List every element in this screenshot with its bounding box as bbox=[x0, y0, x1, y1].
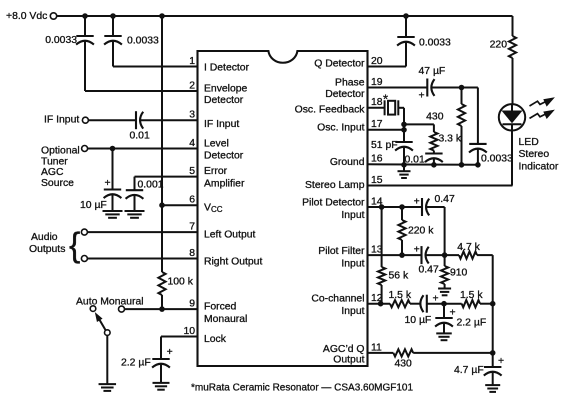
svg-text:430: 430 bbox=[395, 358, 413, 369]
label 4.7 k bbox=[457, 242, 480, 253]
svg-text:Osc. Input: Osc. Input bbox=[317, 122, 364, 133]
label pin9 Forced Monaural bbox=[204, 302, 247, 326]
terminal +8.0 Vdc input bbox=[50, 13, 56, 19]
terminal IF Input bbox=[82, 117, 88, 123]
svg-text:+: + bbox=[419, 91, 425, 102]
svg-text:430: 430 bbox=[426, 112, 444, 123]
svg-text:+: + bbox=[498, 356, 504, 367]
svg-text:Source: Source bbox=[41, 178, 74, 189]
label 0.0033 C3 bbox=[419, 38, 451, 49]
label pin1 I Detector bbox=[204, 63, 250, 74]
brace audio outputs bbox=[69, 227, 80, 265]
wire 4.7k to corner bbox=[477, 255, 493, 304]
resistor 1.5 k left bbox=[390, 300, 410, 307]
svg-text:3: 3 bbox=[189, 110, 195, 121]
node pf junction bbox=[442, 253, 447, 258]
label pin17 Osc. Input bbox=[317, 122, 364, 133]
label 0.0033 C2 bbox=[127, 36, 159, 47]
ground below switch bbox=[99, 384, 117, 391]
svg-text:Right Output: Right Output bbox=[204, 257, 262, 268]
label 0.0033 osc bbox=[481, 154, 513, 165]
svg-text:Detector: Detector bbox=[325, 89, 365, 100]
svg-text:Error: Error bbox=[204, 166, 228, 177]
label pin3 IF Input bbox=[204, 119, 239, 130]
node 100k to pin 9 junction bbox=[160, 307, 165, 312]
wire pin6 Vcc bbox=[162, 204, 198, 206]
capacitor 0.01 osc bbox=[425, 151, 443, 165]
svg-text:0.0033: 0.0033 bbox=[45, 35, 77, 46]
svg-text:*: * bbox=[383, 92, 388, 107]
svg-text:0.47: 0.47 bbox=[419, 265, 439, 276]
wire pin16 ground line bbox=[368, 163, 478, 166]
ground osc network bbox=[398, 165, 411, 178]
terminal Optional Tuner AGC Source bbox=[82, 146, 88, 152]
svg-text:+: + bbox=[167, 347, 173, 358]
svg-text:0.0033: 0.0033 bbox=[127, 36, 159, 47]
label 3.3 k bbox=[439, 134, 462, 145]
ground below 10uF AGC bbox=[103, 211, 123, 218]
wire pin17 Osc Input bbox=[368, 129, 405, 131]
labels left pin numbers 1-10 bbox=[183, 56, 195, 337]
node rail junction at C3 bbox=[404, 14, 409, 19]
svg-text:Lock: Lock bbox=[204, 334, 227, 345]
label pin11 AGCd Q Output bbox=[323, 344, 365, 366]
label 430 osc bbox=[426, 112, 444, 123]
svg-text:Ground: Ground bbox=[330, 157, 365, 168]
node pin14 56k bbox=[379, 205, 384, 210]
label asterisk resonator bbox=[383, 92, 388, 107]
resistor 3.3 k bbox=[430, 132, 437, 151]
label pin4 Level Detector bbox=[204, 139, 244, 162]
svg-text:AGC’d Q: AGC’d Q bbox=[323, 344, 365, 355]
label 0.01 osc bbox=[405, 155, 425, 166]
capacitor 0.47 pilot filter bbox=[422, 246, 429, 264]
label 220 bbox=[490, 40, 508, 51]
svg-text:Auto Monaural: Auto Monaural bbox=[76, 297, 144, 308]
svg-text:0.0033: 0.0033 bbox=[481, 154, 513, 165]
terminal Right Output bbox=[81, 256, 87, 262]
wire +8.0 Vdc supply rail bbox=[57, 15, 513, 17]
wire pin15 Stereo Lamp bbox=[368, 185, 513, 187]
svg-text:+: + bbox=[414, 245, 420, 256]
wire 0.47 to corner bbox=[426, 207, 444, 255]
wire pin2 from C1 bbox=[85, 90, 198, 92]
node rail junction at Vcc branch bbox=[160, 14, 165, 19]
label 10 uF bbox=[80, 200, 107, 211]
capacitor 0.0033 top right C3 bbox=[397, 16, 415, 67]
wire 430 to node bbox=[413, 352, 493, 354]
wire pin18 Osc Feedback bbox=[368, 107, 385, 109]
svg-text:+: + bbox=[450, 308, 456, 319]
label Optional Tuner AGC Source bbox=[41, 145, 80, 189]
node pin12 56k bbox=[378, 301, 383, 306]
label 47 uF bbox=[419, 66, 446, 77]
label + 10uF cc bbox=[433, 294, 439, 305]
svg-text:Audio: Audio bbox=[31, 232, 58, 243]
node gnd 0.0033 bbox=[476, 163, 481, 168]
resonator ceramic (muRata CSA3.60MGF101) bbox=[385, 100, 404, 115]
wire to 10uF bbox=[410, 303, 421, 305]
svg-text:+: + bbox=[414, 196, 420, 207]
svg-text:I Detector: I Detector bbox=[204, 63, 250, 74]
label pin12 Co-channel Input bbox=[311, 294, 364, 318]
wire 3.3k branch bbox=[404, 124, 434, 132]
label Audio Outputs bbox=[29, 232, 65, 255]
wire pin4 Level Detector bbox=[88, 148, 198, 150]
svg-text:9: 9 bbox=[189, 299, 195, 310]
svg-text:10: 10 bbox=[183, 326, 195, 337]
svg-text:10 µF: 10 µF bbox=[405, 315, 432, 326]
label 10 uF cc bbox=[405, 315, 432, 326]
svg-text:18: 18 bbox=[371, 97, 383, 108]
label +8.0 Vdc bbox=[6, 11, 47, 22]
svg-text:Pilot Detector: Pilot Detector bbox=[302, 197, 365, 208]
svg-text:51 pF: 51 pF bbox=[371, 140, 398, 151]
node gnd 51pF bbox=[402, 163, 407, 168]
capacitor 2.2 uF lock bbox=[152, 359, 170, 382]
label + 4.7uF bbox=[498, 356, 504, 367]
label 430 agc bbox=[395, 358, 413, 369]
terminal Auto Monaural bbox=[119, 306, 125, 312]
node gnd 0.01 bbox=[432, 163, 437, 168]
svg-text:6: 6 bbox=[189, 195, 195, 206]
wire 1.5k to corner bbox=[480, 303, 493, 305]
label + 2.2uF lock bbox=[167, 347, 173, 358]
wire osc node vertical bbox=[403, 108, 405, 142]
wire pin7 Left Output bbox=[87, 231, 197, 233]
resistor 56 k bbox=[378, 207, 385, 304]
svg-text:Stereo Lamp: Stereo Lamp bbox=[305, 180, 365, 191]
svg-text:IF Input: IF Input bbox=[204, 119, 239, 130]
node Vcc to pin 6 bbox=[160, 203, 165, 208]
svg-text:Input: Input bbox=[341, 258, 364, 269]
capacitor 47 uF bbox=[427, 79, 434, 97]
svg-text:17: 17 bbox=[371, 119, 383, 130]
svg-text:Forced: Forced bbox=[204, 302, 237, 313]
svg-text:Input: Input bbox=[341, 306, 364, 317]
label + 0.47 pf bbox=[414, 245, 420, 256]
svg-text:Q Detector: Q Detector bbox=[314, 59, 365, 70]
label pin18 Osc. Feedback bbox=[295, 104, 366, 115]
node rail junction at C1 bbox=[83, 14, 88, 19]
label footnote muRata bbox=[191, 383, 413, 394]
wire pin1 from C2 bbox=[113, 66, 198, 68]
label + 2.2uF cc bbox=[450, 308, 456, 319]
svg-text:Optional: Optional bbox=[41, 145, 80, 156]
capacitor 0.0033 (left bypass C1) bbox=[76, 16, 94, 91]
label pin6 Vcc bbox=[204, 203, 223, 215]
label pin14 Pilot Detector Input bbox=[302, 197, 365, 221]
label pin10 Lock bbox=[204, 334, 227, 345]
wire 220 to LED bbox=[512, 58, 514, 105]
label 0.47 pd bbox=[435, 194, 455, 205]
node cc junction bbox=[442, 301, 447, 306]
label pin5 Error Amplifier bbox=[204, 166, 245, 190]
wire pf node bbox=[426, 254, 459, 256]
label pin16 Ground bbox=[330, 157, 365, 168]
wire Vcc vertical rail bbox=[161, 16, 163, 309]
svg-text:56 k: 56 k bbox=[389, 271, 409, 282]
label pin15 Stereo Lamp bbox=[305, 180, 365, 191]
capacitor 0.47 pilot det bbox=[422, 198, 429, 216]
wire pin20 Q Detector bbox=[368, 66, 407, 68]
capacitor 4.7 uF output bbox=[484, 304, 502, 385]
svg-text:Phase: Phase bbox=[335, 78, 365, 89]
svg-text:Stereo: Stereo bbox=[519, 149, 550, 160]
svg-text:0.01: 0.01 bbox=[130, 131, 150, 142]
svg-text:0.47: 0.47 bbox=[435, 194, 455, 205]
label LED Stereo Indicator bbox=[519, 137, 559, 172]
wire pin14 Pilot Detector bbox=[368, 206, 423, 208]
wire 10uF to node bbox=[427, 303, 462, 305]
label 56 k bbox=[389, 271, 409, 282]
label Auto Monaural bbox=[76, 297, 144, 308]
label pin8 Right Output bbox=[204, 257, 262, 268]
LED arrows bbox=[530, 98, 554, 118]
svg-text:Left Output: Left Output bbox=[204, 230, 256, 241]
label 0.47 pf bbox=[419, 265, 439, 276]
svg-text:2.2 µF: 2.2 µF bbox=[121, 358, 151, 369]
svg-text:LED: LED bbox=[519, 137, 539, 148]
label 1.5 k right bbox=[460, 290, 483, 301]
resistor 220 bbox=[509, 36, 516, 58]
svg-text:4: 4 bbox=[189, 138, 195, 149]
svg-text:220: 220 bbox=[490, 40, 508, 51]
svg-text:Co-channel: Co-channel bbox=[311, 294, 364, 305]
node agc out bbox=[490, 351, 495, 356]
svg-text:*muRata Ceramic Resonator — CS: *muRata Ceramic Resonator — CSA3.60MGF10… bbox=[191, 383, 413, 394]
ground below 910 bbox=[438, 289, 451, 296]
wire pin13 Pilot Filter bbox=[368, 254, 422, 256]
svg-text:Detector: Detector bbox=[204, 95, 244, 106]
label 0.0033 C1 bbox=[45, 35, 77, 46]
svg-text:AGC: AGC bbox=[41, 167, 64, 178]
node osc 3.3k branch bbox=[402, 122, 407, 127]
label pin7 Left Output bbox=[204, 230, 256, 241]
capacitor 0.0033 osc bbox=[469, 88, 487, 165]
resistor 4.7 k bbox=[459, 252, 477, 259]
svg-text:5: 5 bbox=[189, 166, 195, 177]
svg-text:0.0033: 0.0033 bbox=[419, 38, 451, 49]
svg-text:19: 19 bbox=[371, 77, 383, 88]
svg-text:2.2 µF: 2.2 µF bbox=[457, 317, 487, 328]
svg-text:Monaural: Monaural bbox=[204, 314, 247, 325]
svg-text:Input: Input bbox=[341, 210, 364, 221]
ground below 4.7uF bbox=[485, 385, 500, 392]
label 2.2 uF lock bbox=[121, 358, 151, 369]
svg-text:Outputs: Outputs bbox=[29, 244, 65, 255]
node osc pin17 bbox=[402, 128, 407, 133]
capacitor 0.0033 (second bypass C2) bbox=[104, 16, 122, 67]
label + 0.47 pd bbox=[414, 196, 420, 207]
svg-text:7: 7 bbox=[189, 222, 195, 233]
svg-text:Osc. Feedback: Osc. Feedback bbox=[295, 104, 366, 115]
labels right pin numbers 11-20 bbox=[371, 56, 383, 353]
switch auto monaural bbox=[90, 306, 110, 384]
wire pin10 Lock bbox=[161, 337, 198, 360]
svg-text:220 k: 220 k bbox=[408, 226, 434, 237]
svg-text:8: 8 bbox=[189, 248, 195, 259]
svg-text:Envelope: Envelope bbox=[204, 84, 248, 95]
op-amp IC body (stereo decoder, 20-pin DIP outline) bbox=[198, 51, 368, 366]
wire pin8 Right Output bbox=[87, 258, 197, 260]
terminal Left Output bbox=[81, 229, 87, 235]
wire rail to 220 bbox=[512, 16, 514, 36]
svg-text:100 k: 100 k bbox=[168, 277, 194, 288]
label pin2 Envelope Detector bbox=[204, 84, 248, 106]
resistor 100 k bbox=[158, 272, 165, 295]
capacitor 10 uF AGC bbox=[104, 149, 122, 211]
svg-text:16: 16 bbox=[371, 154, 383, 165]
ground below 2.2uF lock bbox=[153, 383, 170, 390]
label + 10uF bbox=[105, 178, 111, 189]
resistor 430 agc bbox=[393, 349, 413, 356]
ground below 0.001 bbox=[125, 211, 145, 218]
wire pin9 Forced Monaural bbox=[125, 308, 198, 310]
label 0.01 IF bbox=[130, 131, 150, 142]
ground below 2.2uF cc bbox=[436, 333, 452, 340]
node rail junction at C2 bbox=[111, 14, 116, 19]
label 910 bbox=[450, 268, 468, 279]
svg-text:1.5 k: 1.5 k bbox=[389, 290, 412, 301]
capacitor 51 pF bbox=[395, 142, 413, 165]
resistor 910 bbox=[441, 255, 448, 288]
wire pin19 Phase Detector bbox=[368, 87, 428, 89]
wire phase det node bbox=[432, 87, 478, 89]
label 4.7 uF bbox=[454, 365, 484, 376]
capacitor 0.001 bbox=[126, 177, 144, 211]
svg-text:Output: Output bbox=[333, 355, 364, 366]
svg-text:910: 910 bbox=[450, 268, 468, 279]
svg-text:1: 1 bbox=[189, 56, 195, 67]
svg-text:0.001: 0.001 bbox=[138, 179, 164, 190]
node pin14 220k bbox=[400, 205, 405, 210]
svg-text:47 µF: 47 µF bbox=[419, 66, 446, 77]
label 1.5 k left bbox=[389, 290, 412, 301]
capacitor 2.2 uF co-channel bbox=[435, 304, 453, 333]
svg-text:3.3 k: 3.3 k bbox=[439, 134, 462, 145]
svg-text:1.5 k: 1.5 k bbox=[460, 290, 483, 301]
svg-text:+8.0 Vdc: +8.0 Vdc bbox=[6, 11, 47, 22]
label 2.2 uF cc bbox=[457, 317, 487, 328]
svg-text:+: + bbox=[105, 178, 111, 189]
capacitor 10 uF co-channel bbox=[420, 295, 426, 313]
svg-text:Tuner: Tuner bbox=[41, 156, 68, 167]
wire pin11 AGCd Q bbox=[368, 352, 394, 354]
node gnd 430 bbox=[459, 163, 464, 168]
label 0.001 bbox=[138, 179, 164, 190]
label + 47uF bbox=[419, 91, 425, 102]
svg-text:Level: Level bbox=[204, 139, 229, 150]
label pin20 Q Detector bbox=[314, 59, 365, 70]
node pin13 220k bbox=[400, 253, 405, 258]
label 51 pF bbox=[371, 140, 398, 151]
svg-text:20: 20 bbox=[371, 56, 383, 67]
label pin19 Phase Detector bbox=[325, 78, 365, 100]
label 100 k bbox=[168, 277, 194, 288]
svg-text:Indicator: Indicator bbox=[519, 161, 559, 172]
svg-text:IF Input: IF Input bbox=[44, 115, 79, 126]
svg-text:4.7 µF: 4.7 µF bbox=[454, 365, 484, 376]
wire pin12 Co-channel bbox=[368, 303, 391, 305]
svg-text:10 µF: 10 µF bbox=[80, 200, 107, 211]
svg-text:11: 11 bbox=[371, 342, 382, 353]
svg-text:Pilot Filter: Pilot Filter bbox=[318, 246, 365, 257]
svg-text:VCC: VCC bbox=[204, 203, 223, 215]
svg-text:Detector: Detector bbox=[204, 151, 244, 162]
node cc right corner bbox=[490, 301, 495, 306]
capacitor 0.01 IF coupling bbox=[88, 111, 197, 129]
wire pin5 Error Amplifier bbox=[135, 176, 198, 178]
svg-text:Amplifier: Amplifier bbox=[204, 179, 245, 190]
svg-text:{: { bbox=[69, 227, 80, 265]
label pin13 Pilot Filter Input bbox=[318, 246, 365, 269]
resistor 220 k bbox=[398, 207, 405, 255]
resistor 430 osc bbox=[458, 88, 465, 165]
LED stereo indicator bbox=[499, 104, 525, 185]
label IF Input bbox=[44, 115, 79, 126]
resistor 1.5 k right bbox=[462, 300, 480, 307]
svg-text:4.7 k: 4.7 k bbox=[457, 242, 480, 253]
node 430 top bbox=[459, 85, 464, 90]
label 220 k bbox=[408, 226, 434, 237]
svg-text:2: 2 bbox=[189, 80, 195, 91]
node AGC junction bbox=[110, 146, 115, 151]
svg-text:15: 15 bbox=[371, 175, 383, 186]
